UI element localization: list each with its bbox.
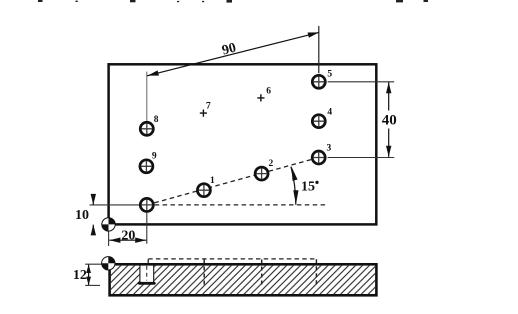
svg-text:8: 8 (154, 115, 159, 125)
datum origin symbol (section view corner) (102, 257, 115, 270)
svg-text:20: 20 (121, 229, 135, 244)
hidden hole line at hole 1 (203, 260, 205, 285)
hidden hole line at hole 3 (315, 259, 317, 285)
svg-text:6: 6 (266, 87, 271, 97)
dimension 20: extension line from origin hole down (146, 212, 148, 244)
hole 1 (197, 184, 210, 197)
hole 8 (140, 122, 153, 135)
plate outline (plan view) (109, 64, 377, 224)
dimension 90: slanted dimension line with arrows (147, 32, 319, 75)
slot dashed centreline (146, 266, 148, 281)
dimension 20: horizontal dimension line with arrows (109, 239, 146, 241)
hole 9 (140, 160, 153, 173)
svg-text:40: 40 (382, 113, 397, 129)
dimension 90: extension line from hole 5 (318, 26, 320, 73)
dimension 10: extension line at hole row (90, 204, 142, 206)
hatched section body (111, 266, 375, 294)
hole 3 (312, 151, 325, 164)
angle dimension 15 deg: arc with arrows (291, 167, 296, 205)
svg-text:4: 4 (327, 108, 332, 118)
slot side edges (140, 266, 154, 284)
svg-text:90: 90 (221, 41, 238, 59)
slot bottom (hole bottom) (139, 282, 154, 285)
point 6 cross (257, 94, 264, 101)
svg-text:10: 10 (75, 208, 89, 223)
dimension 40: vertical dimension line with arrows (388, 82, 390, 111)
dimension 10: vertical dimension line with outside arrows (92, 195, 94, 204)
dimension 12: vertical dimension line with arrows (88, 265, 90, 285)
svg-text:15: 15 (301, 179, 315, 194)
hole 2 (255, 167, 268, 180)
svg-text:1: 1 (210, 176, 215, 186)
dimension 90: extension line from hole 8 (146, 72, 148, 121)
hidden dashed connector left (147, 259, 149, 263)
svg-text:3: 3 (327, 143, 332, 153)
svg-text:2: 2 (269, 159, 274, 169)
dashed construction line at 15 deg through holes 1,2,3 (147, 158, 319, 205)
cropped text remnants at top edge (38, 0, 428, 3)
dimension 20: left extension below plate corner (108, 226, 110, 246)
svg-text:9: 9 (152, 152, 157, 162)
hidden (dashed) top line above section (148, 258, 316, 260)
point 7 cross (200, 110, 207, 117)
hole at origin row (20,10) (140, 198, 153, 211)
dashed construction line horizontal (0 deg) from origin hole (147, 204, 328, 206)
hidden hole line at hole 2 (261, 260, 263, 285)
section outline (110, 264, 377, 295)
sectioned hole slot (white) (139, 263, 154, 284)
svg-text:5: 5 (327, 70, 332, 80)
svg-text:12: 12 (73, 268, 87, 283)
dimension 12: extension lines (85, 263, 101, 265)
svg-text:7: 7 (206, 102, 211, 112)
dimension 40: extension lines from holes 5 and 3 (328, 81, 395, 83)
hole 4 (312, 115, 325, 128)
datum origin symbol (plan view corner) (102, 218, 115, 231)
hole 5 (312, 75, 325, 88)
